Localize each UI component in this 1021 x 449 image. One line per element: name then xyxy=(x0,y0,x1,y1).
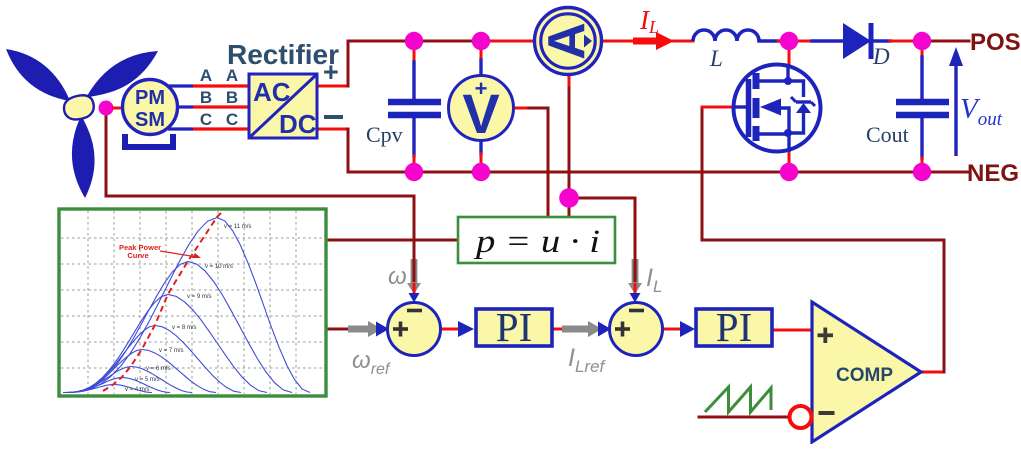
svg-text:v = 6 m/s: v = 6 m/s xyxy=(146,366,171,372)
svg-text:Curve: Curve xyxy=(127,251,148,260)
svg-text:v = 7 m/s: v = 7 m/s xyxy=(159,348,184,354)
svg-text:v = 9 m/s: v = 9 m/s xyxy=(187,294,212,300)
svg-text:C: C xyxy=(200,110,212,129)
svg-text:+: + xyxy=(323,57,339,87)
svg-text:B: B xyxy=(200,88,212,107)
svg-text:v = 5 m/s: v = 5 m/s xyxy=(135,377,160,383)
svg-text:SM: SM xyxy=(135,109,165,131)
svg-text:C: C xyxy=(226,110,238,129)
svg-text:D: D xyxy=(872,44,890,69)
svg-text:DC: DC xyxy=(279,109,317,139)
svg-text:v = 4 m/s: v = 4 m/s xyxy=(125,387,150,393)
svg-text:AC: AC xyxy=(253,77,291,107)
svg-text:V: V xyxy=(462,82,499,145)
svg-text:ω: ω xyxy=(388,263,407,290)
svg-text:L: L xyxy=(709,46,723,71)
svg-text:NEG: NEG xyxy=(967,160,1019,187)
svg-text:COMP: COMP xyxy=(836,365,893,386)
svg-text:PI: PI xyxy=(496,304,532,350)
svg-text:A: A xyxy=(200,66,212,85)
svg-text:v = 11 m/s: v = 11 m/s xyxy=(224,224,251,230)
svg-text:v = 10 m/s: v = 10 m/s xyxy=(205,264,233,270)
svg-text:PI: PI xyxy=(716,304,752,350)
svg-text:Cout: Cout xyxy=(866,122,909,147)
svg-text:Cpv: Cpv xyxy=(366,122,403,147)
svg-text:p = u · i: p = u · i xyxy=(474,224,600,260)
svg-text:POS: POS xyxy=(970,29,1021,56)
svg-text:PM: PM xyxy=(135,87,165,109)
svg-text:B: B xyxy=(226,88,238,107)
svg-text:v = 8 m/s: v = 8 m/s xyxy=(172,325,197,331)
